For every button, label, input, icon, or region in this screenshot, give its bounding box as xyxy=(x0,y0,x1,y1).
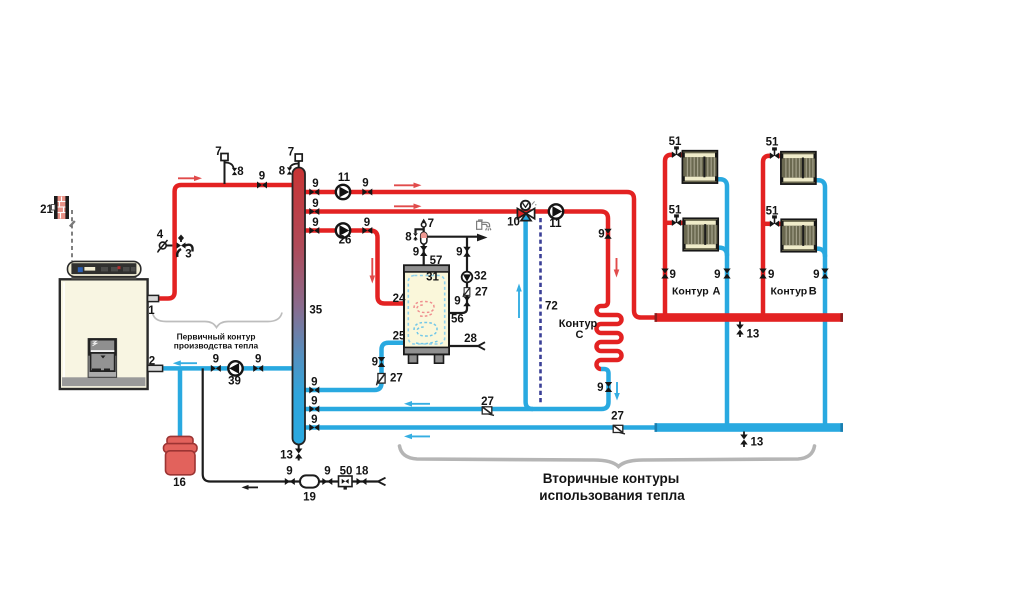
svg-text:57: 57 xyxy=(430,255,443,267)
svg-text:7: 7 xyxy=(215,146,221,158)
svg-text:8: 8 xyxy=(405,231,412,243)
svg-text:9: 9 xyxy=(456,247,462,259)
svg-text:9: 9 xyxy=(312,198,318,210)
svg-text:31: 31 xyxy=(426,272,439,284)
svg-text:27: 27 xyxy=(481,396,494,408)
svg-text:2: 2 xyxy=(149,356,155,368)
svg-text:9: 9 xyxy=(813,269,819,281)
svg-text:27: 27 xyxy=(611,411,624,423)
svg-text:9: 9 xyxy=(362,178,368,190)
svg-text:B: B xyxy=(809,286,817,298)
svg-text:51: 51 xyxy=(669,136,682,148)
svg-text:9: 9 xyxy=(598,229,604,241)
svg-text:9: 9 xyxy=(259,171,265,183)
svg-text:A: A xyxy=(713,286,721,298)
svg-text:9: 9 xyxy=(286,466,292,478)
svg-text:13: 13 xyxy=(280,450,293,462)
svg-text:11: 11 xyxy=(338,172,351,184)
svg-text:7: 7 xyxy=(288,147,294,159)
svg-text:18: 18 xyxy=(356,466,369,478)
svg-text:51: 51 xyxy=(669,205,682,217)
svg-text:9: 9 xyxy=(213,354,219,366)
svg-text:26: 26 xyxy=(339,235,352,247)
svg-text:25: 25 xyxy=(393,331,406,343)
svg-text:39: 39 xyxy=(228,376,241,388)
svg-text:4: 4 xyxy=(157,229,164,241)
svg-text:9: 9 xyxy=(670,269,676,281)
svg-text:9: 9 xyxy=(312,178,318,190)
svg-text:27: 27 xyxy=(390,373,403,385)
svg-text:3: 3 xyxy=(185,249,191,261)
svg-text:7: 7 xyxy=(428,218,434,230)
svg-text:28: 28 xyxy=(464,333,477,345)
svg-text:19: 19 xyxy=(303,492,316,504)
svg-text:8: 8 xyxy=(237,166,244,178)
svg-text:13: 13 xyxy=(751,437,764,449)
svg-text:9: 9 xyxy=(597,382,603,394)
svg-text:9: 9 xyxy=(364,217,370,229)
svg-text:72: 72 xyxy=(545,301,558,313)
svg-text:Контур: Контур xyxy=(559,318,598,330)
svg-text:32: 32 xyxy=(474,271,487,283)
svg-text:Контур: Контур xyxy=(672,286,709,298)
svg-text:9: 9 xyxy=(312,217,318,229)
svg-text:Контур: Контур xyxy=(771,286,808,298)
svg-text:Вторичные контуры: Вторичные контуры xyxy=(543,471,680,486)
svg-text:56: 56 xyxy=(451,314,464,326)
svg-text:35: 35 xyxy=(309,305,322,317)
svg-text:С: С xyxy=(576,329,584,341)
svg-text:21: 21 xyxy=(40,204,53,216)
svg-text:13: 13 xyxy=(747,329,760,341)
svg-text:9: 9 xyxy=(311,414,317,426)
svg-text:9: 9 xyxy=(311,396,317,408)
svg-text:9: 9 xyxy=(311,377,317,389)
svg-text:16: 16 xyxy=(173,477,186,489)
svg-text:50: 50 xyxy=(340,466,353,478)
svg-text:27: 27 xyxy=(475,287,488,299)
svg-text:9: 9 xyxy=(372,357,378,369)
svg-text:использования тепла: использования тепла xyxy=(539,488,685,503)
svg-text:10: 10 xyxy=(507,217,520,229)
svg-text:9: 9 xyxy=(454,296,460,308)
svg-text:9: 9 xyxy=(413,247,419,259)
svg-text:51: 51 xyxy=(766,206,779,218)
svg-text:9: 9 xyxy=(324,466,330,478)
svg-text:24: 24 xyxy=(393,293,406,305)
svg-text:9: 9 xyxy=(714,269,720,281)
svg-text:9: 9 xyxy=(255,354,261,366)
svg-text:11: 11 xyxy=(549,218,562,230)
svg-text:производства тепла: производства тепла xyxy=(174,341,259,351)
svg-text:1: 1 xyxy=(148,305,155,317)
svg-text:9: 9 xyxy=(768,269,774,281)
svg-text:51: 51 xyxy=(766,137,779,149)
svg-text:8: 8 xyxy=(279,166,286,178)
